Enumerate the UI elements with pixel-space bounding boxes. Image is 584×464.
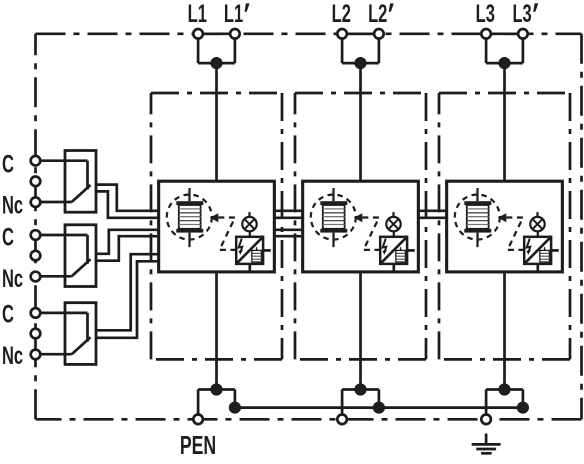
svg-text:Nc: Nc bbox=[2, 343, 23, 370]
svg-text:L3: L3 bbox=[476, 1, 495, 28]
svg-text:C: C bbox=[2, 301, 14, 328]
svg-text:L2: L2 bbox=[368, 1, 387, 28]
svg-text:C: C bbox=[2, 224, 14, 251]
svg-text:L1: L1 bbox=[224, 1, 243, 28]
svg-text:L2: L2 bbox=[332, 1, 351, 28]
svg-text:L3: L3 bbox=[512, 1, 531, 28]
svg-text:L1: L1 bbox=[188, 1, 207, 28]
svg-text:PEN: PEN bbox=[180, 431, 216, 460]
svg-text:Nc: Nc bbox=[2, 266, 23, 293]
svg-text:C: C bbox=[2, 151, 14, 178]
svg-text:Nc: Nc bbox=[2, 192, 23, 219]
